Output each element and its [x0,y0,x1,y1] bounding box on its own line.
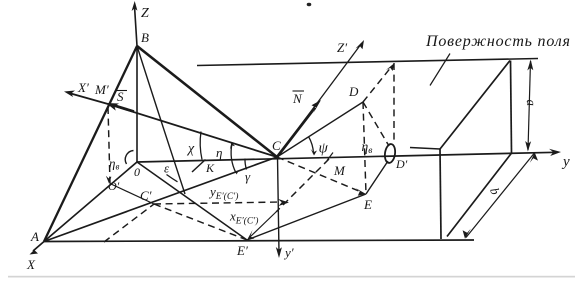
angle eta_v hook at O [125,151,133,165]
angle psi arc right of C with arrow [309,137,314,154]
wire E to D' [366,161,388,194]
svg-text:N: N [292,91,303,106]
dashed wire C to E with arrowhead at E [277,157,360,192]
svg-text:S: S [117,89,124,104]
speck [307,3,312,6]
svg-text:χ: χ [186,142,195,157]
svg-text:D′: D′ [395,157,408,171]
wire box vertical right of top face [511,61,512,154]
svg-text:M: M [333,163,346,178]
wire B to C thick [137,46,277,157]
svg-text:0: 0 [134,165,140,179]
svg-text:Повержность поля: Повержность поля [425,33,571,50]
svg-text:γ: γ [245,169,251,184]
dashed wire C' to right with arrowhead (y coordinate line) [154,202,282,204]
wire axis Z' from C up right [277,44,362,158]
wire line A to C through C' [44,157,277,242]
vector S bar : thick arrow along X' line into M' [112,105,134,112]
wire O to E' construction line [137,162,247,240]
arrowhead X tip [30,247,39,255]
wire box bottom diagonal [447,153,512,237]
wire box diagonal corner to top right [440,61,510,150]
vector N bar thick segment with arrowhead [277,108,315,158]
arrowhead X' tip [64,91,75,98]
dashed wire vertical from top line down to D' [393,63,395,144]
dimension b double arrow [466,154,534,238]
svg-text:X: X [26,257,36,272]
svg-text:y′: y′ [283,245,294,260]
angle gamma arc at C [245,159,247,170]
dashed wire M' down to O' [108,107,110,184]
wire box corner short horizontal [410,148,440,150]
tick at K on Y axis [192,160,206,173]
svg-text:X′: X′ [77,80,89,95]
dashed wire D down to E [363,102,366,194]
svg-text:η: η [216,145,222,160]
wire bottom edge from A to right [44,240,474,242]
wire E' to E [247,194,366,240]
svg-text:M′: M′ [94,82,109,97]
bottom scan band [8,276,575,278]
wire B down to point V on line O-E' [137,46,185,194]
arrowhead y' [276,247,282,258]
wire O' to C' [111,184,154,204]
wire leader line of label [430,54,450,86]
wire top surface line [197,59,538,66]
svg-text:Z: Z [141,6,149,21]
svg-text:E′: E′ [236,243,248,258]
angle epsilon arc at V [167,175,178,182]
wire edge A-B through M' [44,46,137,242]
dashed wire M to E' upper part [276,159,329,212]
wire axis X : from O through A to tip [33,162,137,251]
svg-text:C: C [272,138,281,153]
svg-text:E: E [363,197,372,212]
solid arrow lower part into E' (x coordinate arrow) [250,212,276,237]
dashed wire C' to E' [154,204,247,240]
arrowhead at O' end of dashed [106,176,112,184]
overbar of N [293,90,305,92]
dimension a vertical double arrow [528,61,531,150]
svg-text:ψ: ψ [319,141,329,157]
svg-text:B: B [141,30,149,45]
dashed wire D to D' [363,102,389,146]
wire box front vertical [440,149,441,239]
point M tick on Y axis [327,153,333,161]
arrowhead Z axis [132,1,138,11]
svg-text:A: A [30,229,39,244]
svg-text:C′: C′ [140,188,152,203]
wire axis X' : line C through M' to tip [69,93,277,157]
svg-text:D: D [348,84,359,99]
dashed wire D up to surface with arrowhead [363,66,392,102]
angle eta arc at C with arrows [231,144,236,174]
svg-text:ε: ε [164,161,170,176]
arrowhead Z' [356,40,365,49]
wire C to D thin [277,102,363,157]
arrowhead Y tip [549,149,561,156]
wire axis Z from B up [135,6,138,46]
dashed wire from bottom edge up to C' [104,204,154,242]
angle chi arc at C [200,132,202,160]
svg-text:y: y [561,154,570,170]
svg-text:K: K [205,161,215,175]
ellipse angle eta_v at D' [384,143,397,163]
wire axis y' from C down [278,157,280,253]
svg-text:Z′: Z′ [337,40,347,55]
wire B to O vertical [136,46,138,162]
wire axis Y : from O to right arrow [137,152,556,162]
overbar of S [116,90,127,92]
